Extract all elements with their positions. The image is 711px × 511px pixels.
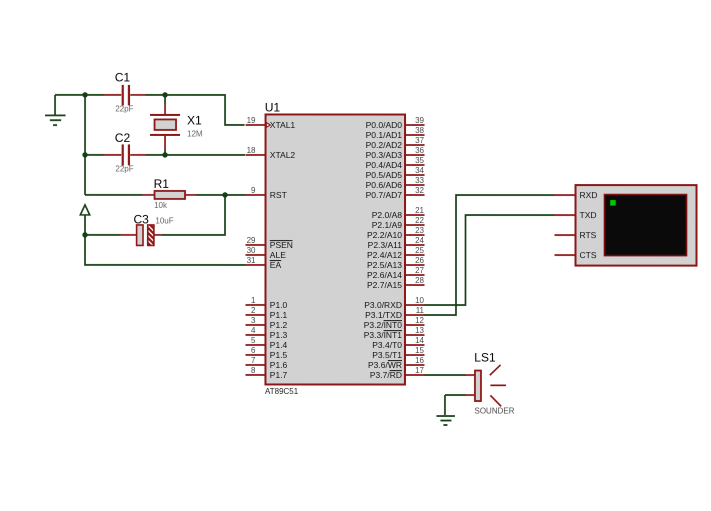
svg-text:26: 26 xyxy=(415,256,424,265)
svg-text:P3.2/INT0: P3.2/INT0 xyxy=(364,320,403,330)
svg-text:P2.7/A15: P2.7/A15 xyxy=(367,280,402,290)
svg-text:P3.5/T1: P3.5/T1 xyxy=(372,350,402,360)
svg-text:X1: X1 xyxy=(187,114,202,128)
svg-text:30: 30 xyxy=(247,246,256,255)
svg-text:P0.5/AD5: P0.5/AD5 xyxy=(366,170,403,180)
svg-text:XTAL2: XTAL2 xyxy=(270,150,296,160)
svg-text:AT89C51: AT89C51 xyxy=(265,387,299,396)
svg-text:P2.1/A9: P2.1/A9 xyxy=(372,220,403,230)
svg-text:37: 37 xyxy=(415,136,424,145)
svg-text:22pF: 22pF xyxy=(115,164,133,173)
svg-text:15: 15 xyxy=(415,346,424,355)
svg-text:P1.7: P1.7 xyxy=(270,370,288,380)
svg-text:22: 22 xyxy=(415,216,424,225)
svg-text:24: 24 xyxy=(415,236,424,245)
svg-text:22pF: 22pF xyxy=(115,104,133,113)
svg-text:P3.6/WR: P3.6/WR xyxy=(368,360,402,370)
svg-text:XTAL1: XTAL1 xyxy=(270,120,296,130)
svg-text:38: 38 xyxy=(415,126,424,135)
svg-text:P0.3/AD3: P0.3/AD3 xyxy=(366,150,403,160)
svg-text:TXD: TXD xyxy=(580,210,597,220)
svg-text:32: 32 xyxy=(415,186,424,195)
svg-text:12: 12 xyxy=(415,316,424,325)
svg-text:RTS: RTS xyxy=(580,230,597,240)
svg-text:RXD: RXD xyxy=(580,190,598,200)
svg-text:ALE: ALE xyxy=(270,250,286,260)
svg-text:10uF: 10uF xyxy=(155,216,173,225)
svg-text:36: 36 xyxy=(415,146,424,155)
svg-text:P2.5/A13: P2.5/A13 xyxy=(367,260,402,270)
svg-text:12M: 12M xyxy=(187,130,203,139)
svg-text:P2.2/A10: P2.2/A10 xyxy=(367,230,402,240)
svg-text:P0.2/AD2: P0.2/AD2 xyxy=(366,140,403,150)
svg-text:P1.6: P1.6 xyxy=(270,360,288,370)
svg-text:34: 34 xyxy=(415,166,424,175)
svg-text:21: 21 xyxy=(415,206,424,215)
svg-text:4: 4 xyxy=(251,326,256,335)
svg-text:27: 27 xyxy=(415,266,424,275)
svg-text:10k: 10k xyxy=(154,201,168,210)
svg-text:1: 1 xyxy=(251,296,256,305)
svg-text:P2.3/A11: P2.3/A11 xyxy=(368,240,403,250)
svg-text:LS1: LS1 xyxy=(474,351,496,365)
svg-text:P2.0/A8: P2.0/A8 xyxy=(372,210,403,220)
svg-text:P1.0: P1.0 xyxy=(270,300,288,310)
svg-text:10: 10 xyxy=(415,296,424,305)
svg-text:39: 39 xyxy=(415,116,424,125)
svg-text:P3.3/INT1: P3.3/INT1 xyxy=(364,330,403,340)
svg-text:P3.1/TXD: P3.1/TXD xyxy=(365,310,402,320)
svg-text:29: 29 xyxy=(247,236,256,245)
svg-text:SOUNDER: SOUNDER xyxy=(474,406,514,415)
svg-text:P0.0/AD0: P0.0/AD0 xyxy=(366,120,403,130)
svg-text:P1.2: P1.2 xyxy=(270,320,288,330)
svg-text:5: 5 xyxy=(251,336,256,345)
svg-text:18: 18 xyxy=(247,146,256,155)
svg-text:C1: C1 xyxy=(115,71,131,85)
svg-text:P3.0/RXD: P3.0/RXD xyxy=(364,300,402,310)
svg-text:P1.1: P1.1 xyxy=(270,310,288,320)
svg-text:P1.3: P1.3 xyxy=(270,330,288,340)
svg-text:13: 13 xyxy=(415,326,424,335)
svg-text:P2.4/A12: P2.4/A12 xyxy=(367,250,402,260)
svg-text:EA: EA xyxy=(270,260,282,270)
svg-text:C3: C3 xyxy=(134,213,150,227)
svg-text:PSEN: PSEN xyxy=(270,240,293,250)
svg-text:2: 2 xyxy=(251,306,256,315)
svg-text:6: 6 xyxy=(251,346,256,355)
svg-text:P3.7/RD: P3.7/RD xyxy=(370,370,402,380)
svg-text:31: 31 xyxy=(247,256,256,265)
svg-text:P0.7/AD7: P0.7/AD7 xyxy=(366,190,403,200)
svg-text:3: 3 xyxy=(251,316,256,325)
svg-text:11: 11 xyxy=(416,306,425,315)
svg-text:RST: RST xyxy=(270,190,287,200)
svg-text:35: 35 xyxy=(415,156,424,165)
svg-text:17: 17 xyxy=(415,366,424,375)
svg-text:25: 25 xyxy=(415,246,424,255)
svg-text:P1.5: P1.5 xyxy=(270,350,288,360)
svg-text:23: 23 xyxy=(415,226,424,235)
svg-text:P2.6/A14: P2.6/A14 xyxy=(367,270,402,280)
svg-text:16: 16 xyxy=(415,356,424,365)
svg-text:19: 19 xyxy=(247,116,256,125)
svg-text:CTS: CTS xyxy=(579,250,596,260)
svg-text:U1: U1 xyxy=(265,100,281,114)
svg-text:P1.4: P1.4 xyxy=(270,340,288,350)
svg-text:P3.4/T0: P3.4/T0 xyxy=(372,340,402,350)
svg-text:P0.4/AD4: P0.4/AD4 xyxy=(366,160,403,170)
svg-text:R1: R1 xyxy=(154,177,170,191)
svg-text:14: 14 xyxy=(415,336,424,345)
svg-text:P0.6/AD6: P0.6/AD6 xyxy=(366,180,403,190)
svg-text:33: 33 xyxy=(415,176,424,185)
svg-text:C2: C2 xyxy=(115,131,131,145)
svg-text:8: 8 xyxy=(251,366,256,375)
svg-text:P0.1/AD1: P0.1/AD1 xyxy=(366,130,403,140)
svg-text:28: 28 xyxy=(415,276,424,285)
svg-text:9: 9 xyxy=(251,186,256,195)
svg-text:7: 7 xyxy=(251,356,256,365)
